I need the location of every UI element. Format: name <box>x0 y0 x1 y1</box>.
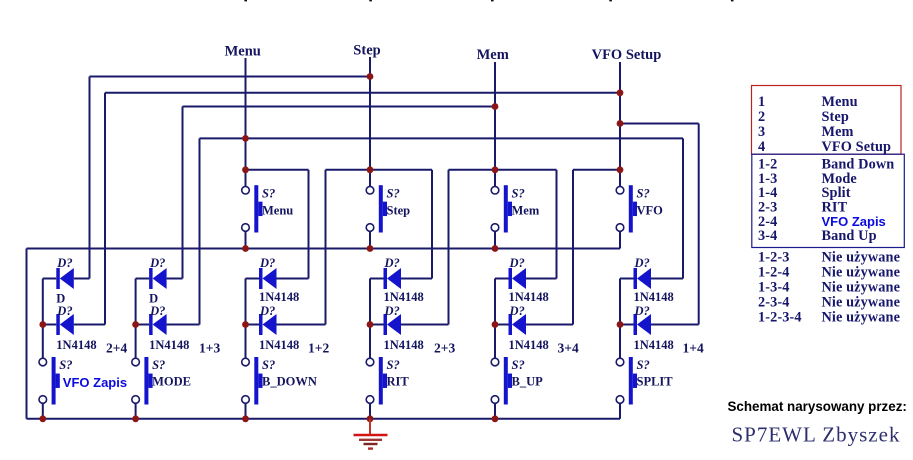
wire riser B_DOWN D1 <box>308 170 310 279</box>
svg-text:Schemat narysowany przez:: Schemat narysowany przez: <box>728 399 907 414</box>
svg-text:Step: Step <box>353 43 380 59</box>
svg-text:Step: Step <box>387 203 411 217</box>
svg-text:2: 2 <box>758 109 765 125</box>
svg-text:Step: Step <box>822 109 849 125</box>
wire VFO Setup branch horizontal y=123 <box>620 123 699 125</box>
wire riser B_UP D2 <box>572 170 574 325</box>
wire B_UP D2 to riser <box>526 324 573 326</box>
svg-text:2+3: 2+3 <box>434 341 455 356</box>
junction RIT column / D2 row <box>367 321 374 328</box>
svg-text:1+3: 1+3 <box>199 341 220 356</box>
wire net4 row segment B_UP D2 riser to VFO column <box>573 169 620 171</box>
wire bus net1 to D1 of SPLIT <box>651 278 683 280</box>
diode D? (top, SPLIT net) <box>620 278 634 280</box>
junction Mem column / net3 bus <box>492 103 499 110</box>
svg-text:Mem: Mem <box>822 124 854 140</box>
svg-text:S?: S? <box>512 358 525 372</box>
wire VFO switch bottom to common bus <box>619 232 621 249</box>
svg-text:2-3-4: 2-3-4 <box>758 295 789 311</box>
wire Step switch bottom to common bus <box>369 232 371 249</box>
junction B_DOWN column / D2 row <box>242 321 249 328</box>
svg-text:SPLIT: SPLIT <box>637 375 674 389</box>
legend blue box pair functions <box>752 154 905 247</box>
switch S? Mem <box>491 186 499 194</box>
junction VFO column / net4 bus <box>617 89 624 96</box>
svg-text:4: 4 <box>758 139 765 155</box>
switch S? B_UP <box>491 358 499 366</box>
wire MODE switch bottom to ground bus <box>135 404 137 419</box>
wire riser B_DOWN D2 <box>325 170 327 325</box>
wire left frame vertical <box>26 249 28 419</box>
svg-text:Nie używane: Nie używane <box>822 264 901 280</box>
wire bus net1 to D2 of MODE <box>167 324 200 326</box>
diode D? (top, B_UP net) <box>495 278 509 280</box>
diode D? (top, MODE net) <box>136 278 150 280</box>
wire ground bus (bottom) <box>27 418 621 420</box>
svg-text:3-4: 3-4 <box>758 228 777 244</box>
junction Step column / net2 bus <box>367 73 374 80</box>
svg-text:1-2-3: 1-2-3 <box>758 249 789 265</box>
wire column 4 VFO Setup vertical <box>619 62 621 186</box>
wire bus net2 left drop <box>89 77 91 279</box>
svg-text:1N4148: 1N4148 <box>509 290 549 304</box>
wire bus net1 horizontal (Menu row y=138) <box>200 137 684 139</box>
wire B_DOWN anode column vertical <box>245 279 247 358</box>
svg-text:D?: D? <box>634 304 650 318</box>
wire VFO Setup branch to D2 of SPLIT <box>651 324 699 326</box>
switch S? SPLIT <box>616 358 624 366</box>
svg-text:Menu: Menu <box>225 44 261 60</box>
svg-text:VFO Setup: VFO Setup <box>822 139 892 155</box>
ground symbol <box>354 419 388 449</box>
wire RIT D2 to riser <box>401 324 449 326</box>
wire B_UP anode column vertical <box>494 279 496 358</box>
wire riser RIT D1 <box>431 170 433 279</box>
svg-text:B_DOWN: B_DOWN <box>262 375 317 389</box>
junction Menu switch bottom / common bus <box>242 245 249 252</box>
wire B_UP D1 to riser <box>526 278 557 280</box>
junction Menu column / net row <box>242 166 249 173</box>
wire Mem switch bottom to common bus <box>494 232 496 249</box>
junction MODE column / D2 row <box>132 321 139 328</box>
svg-text:S?: S? <box>387 358 400 372</box>
wire common bus (mid) <box>27 248 621 250</box>
diode D? (bottom, MODE net) <box>136 324 150 326</box>
svg-text:S?: S? <box>152 358 165 372</box>
svg-text:D?: D? <box>149 304 165 318</box>
wire B_DOWN switch bottom to ground bus <box>245 404 247 419</box>
wire net1 row segment Menu to B_DOWN D1 riser <box>246 169 309 171</box>
svg-text:VFO Setup: VFO Setup <box>592 47 662 63</box>
svg-text:3: 3 <box>758 124 765 140</box>
svg-text:VFO Zapis: VFO Zapis <box>63 375 127 390</box>
wire net3 row segment RIT D2 riser to B_UP D1 riser <box>449 169 557 171</box>
wire RIT anode column vertical <box>369 279 371 358</box>
diode D? (bottom, B_UP net) <box>495 324 509 326</box>
diode D? (top, RIT net) <box>370 278 384 280</box>
diode D? (top, VFO Zapis net) <box>43 278 57 280</box>
wire B_DOWN D1 to riser <box>277 278 309 280</box>
wire riser RIT D2 <box>448 170 450 325</box>
switch S? Step <box>366 186 374 194</box>
svg-text:D?: D? <box>509 256 525 270</box>
wire bus net1 right drop <box>682 138 684 278</box>
junction MODE column / ground bus <box>132 415 139 422</box>
wire RIT switch bottom to ground bus <box>369 404 371 419</box>
svg-text:SP7EWL Zbyszek: SP7EWL Zbyszek <box>732 423 901 447</box>
svg-text:Nie używane: Nie używane <box>822 280 901 296</box>
switch S? RIT <box>366 358 374 366</box>
wire riser B_UP D1 <box>556 170 558 279</box>
switch S? MODE <box>132 358 140 366</box>
svg-text:D?: D? <box>634 256 650 270</box>
junction SPLIT column / D2 row <box>617 321 624 328</box>
junction RIT column / ground bus <box>367 415 374 422</box>
wire SPLIT anode column vertical <box>619 279 621 358</box>
junction VFO column / net row <box>617 166 624 173</box>
svg-text:S?: S? <box>262 358 275 372</box>
svg-text:VFO: VFO <box>637 203 664 217</box>
svg-text:1N4148: 1N4148 <box>509 338 549 352</box>
wire MODE anode column vertical <box>135 279 137 358</box>
svg-text:MODE: MODE <box>152 375 191 389</box>
junction Mem switch bottom / common bus <box>492 245 499 252</box>
svg-text:D?: D? <box>56 256 72 270</box>
svg-text:Mem: Mem <box>512 203 540 217</box>
svg-text:D?: D? <box>384 304 400 318</box>
svg-text:2+4: 2+4 <box>106 341 127 356</box>
svg-text:D?: D? <box>509 304 525 318</box>
svg-text:RIT: RIT <box>387 375 410 389</box>
svg-text:1N4148: 1N4148 <box>56 338 96 352</box>
svg-text:VFO Zapis: VFO Zapis <box>822 214 886 229</box>
junction Step column / net row <box>367 166 374 173</box>
wire Menu switch bottom to common bus <box>245 232 247 249</box>
svg-text:1N4148: 1N4148 <box>259 290 299 304</box>
junction VFO Zapis column / ground bus <box>39 415 46 422</box>
svg-text:1+4: 1+4 <box>683 341 704 356</box>
switch S? VFO <box>616 186 624 194</box>
svg-text:1-3-4: 1-3-4 <box>758 280 789 296</box>
wire net2 row segment B_DOWN D2 riser to RIT D1 riser <box>326 169 433 171</box>
wire bus net2 horizontal (Step row y=76) <box>90 76 371 78</box>
wire column 3 Mem vertical <box>494 62 496 186</box>
wire column 1 Menu vertical <box>245 58 247 186</box>
svg-text:D?: D? <box>259 304 275 318</box>
junction VFO Zapis column / D2 row <box>39 321 46 328</box>
wire VFO Setup branch right drop <box>698 124 700 325</box>
wire bus net3 horizontal (Mem row y=106) <box>183 106 496 108</box>
diode D? (top, B_DOWN net) <box>246 278 260 280</box>
svg-text:1N4148: 1N4148 <box>259 338 299 352</box>
svg-text:Menu: Menu <box>262 203 293 217</box>
legend red box pins 1-4 <box>752 86 902 155</box>
wire VFO Zapis anode column vertical <box>42 279 44 358</box>
svg-text:1N4148: 1N4148 <box>634 338 674 352</box>
svg-text:1N4148: 1N4148 <box>384 290 424 304</box>
svg-text:1: 1 <box>758 94 765 110</box>
wire bus net3 to D1 of MODE <box>167 278 183 280</box>
junction Step switch bottom / common bus <box>367 245 374 252</box>
wire bus net4 to D2 of VFO Zapis <box>74 324 105 326</box>
svg-text:1-2-4: 1-2-4 <box>758 264 789 280</box>
cropped artifacts at top edge <box>244 0 247 1</box>
diode D? (bottom, SPLIT net) <box>620 324 634 326</box>
svg-text:1N4148: 1N4148 <box>634 290 674 304</box>
svg-text:S?: S? <box>512 187 525 201</box>
switch S? VFO Zapis <box>39 358 47 366</box>
svg-text:1-2-3-4: 1-2-3-4 <box>758 310 802 326</box>
svg-text:S?: S? <box>262 187 275 201</box>
junction Mem column / net row <box>492 166 499 173</box>
svg-text:Band Up: Band Up <box>822 228 877 244</box>
switch S? Menu <box>242 186 250 194</box>
svg-text:Nie używane: Nie używane <box>822 295 901 311</box>
svg-text:Mem: Mem <box>477 47 509 63</box>
switch S? B_DOWN <box>242 358 250 366</box>
wire bus net4 left drop <box>104 93 106 325</box>
junction B_DOWN column / ground bus <box>242 415 249 422</box>
svg-text:1+2: 1+2 <box>308 341 329 356</box>
svg-text:Nie używane: Nie używane <box>822 249 901 265</box>
svg-text:D?: D? <box>384 256 400 270</box>
svg-text:S?: S? <box>387 187 400 201</box>
svg-text:3+4: 3+4 <box>558 341 579 356</box>
wire RIT D1 to riser <box>401 278 432 280</box>
wire B_UP switch bottom to ground bus <box>494 404 496 419</box>
wire bus net2 to D1 of VFO Zapis <box>74 278 90 280</box>
wire SPLIT switch bottom to ground bus <box>619 404 621 419</box>
svg-text:S?: S? <box>59 358 72 372</box>
wire bus net1 left drop <box>199 138 201 324</box>
diode D? (bottom, RIT net) <box>370 324 384 326</box>
wire B_DOWN D2 to riser <box>277 324 326 326</box>
svg-text:Menu: Menu <box>822 94 858 110</box>
svg-text:Nie używane: Nie używane <box>822 310 901 326</box>
diode D? (bottom, VFO Zapis net) <box>43 324 57 326</box>
wire column 2 Step vertical <box>369 57 371 186</box>
wire bus net3 left drop <box>182 107 184 279</box>
svg-text:S?: S? <box>637 358 650 372</box>
junction B_UP column / ground bus <box>492 415 499 422</box>
diode D? (bottom, B_DOWN net) <box>246 324 260 326</box>
wire bus net4 horizontal (VFO Setup row y=93) <box>105 92 620 94</box>
junction VFO column / branch y=123 <box>617 120 624 127</box>
svg-text:S?: S? <box>637 187 650 201</box>
junction B_UP column / D2 row <box>492 321 499 328</box>
svg-text:1N4148: 1N4148 <box>149 338 189 352</box>
svg-text:D?: D? <box>259 256 275 270</box>
svg-text:D?: D? <box>56 304 72 318</box>
svg-text:D?: D? <box>149 256 165 270</box>
wire VFO Zapis switch bottom to ground bus <box>42 404 44 419</box>
svg-text:B_UP: B_UP <box>512 375 544 389</box>
svg-text:1N4148: 1N4148 <box>384 338 424 352</box>
junction Menu column / net1 bus <box>242 135 249 142</box>
